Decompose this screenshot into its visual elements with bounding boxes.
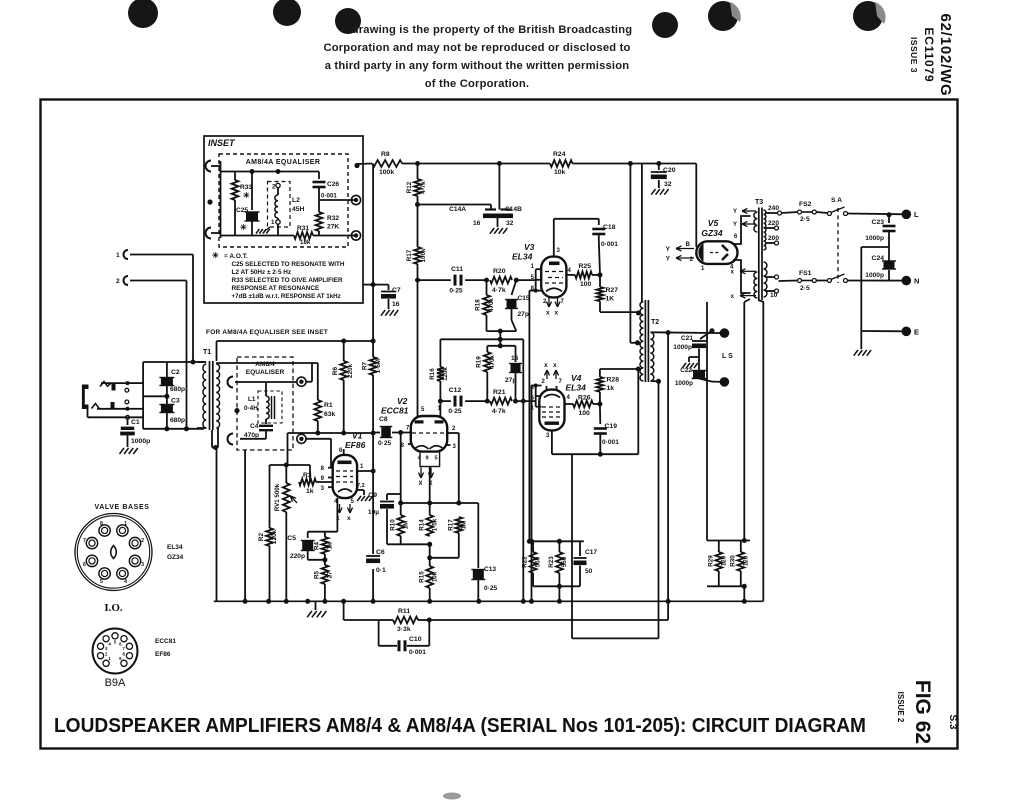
svg-text:R17: R17 — [406, 249, 413, 261]
B9A valve base — [93, 629, 138, 674]
node V1 anode — [371, 469, 376, 474]
svg-text:1M: 1M — [461, 521, 468, 530]
resistor R32 — [318, 193, 320, 212]
capacitor C12 — [454, 396, 457, 407]
resistor R17b — [455, 517, 462, 533]
resistor R19 — [486, 346, 488, 352]
svg-text:680p: 680p — [170, 417, 185, 424]
svg-text:EL34: EL34 — [167, 544, 183, 551]
svg-text:R30: R30 — [730, 555, 737, 567]
capacitor C16 — [515, 346, 517, 362]
svg-text:R24: R24 — [553, 151, 566, 158]
node rail y341 junction — [371, 339, 376, 344]
svg-text:0·001: 0·001 — [321, 193, 337, 200]
capacitor C6 — [366, 555, 380, 557]
svg-text:Y: Y — [733, 209, 737, 215]
ground earth — [860, 331, 862, 349]
grid rail y433 — [288, 432, 374, 434]
equaliser input arc lower — [228, 434, 234, 445]
svg-text:16: 16 — [392, 301, 400, 308]
jack plug lower — [92, 404, 100, 409]
node equaliser left edge — [234, 408, 239, 413]
wire secondary return drop — [571, 454, 573, 638]
jack plug upper — [100, 382, 111, 387]
wire feedback vertical — [667, 601, 669, 620]
svg-text:0·25: 0·25 — [448, 408, 462, 415]
svg-text:ECC81: ECC81 — [155, 638, 176, 645]
inductor L1 — [266, 396, 269, 419]
V5 heater arrows Y — [676, 248, 694, 250]
svg-text:0·001: 0·001 — [602, 439, 619, 446]
switch SA upper — [816, 212, 827, 213]
node feedback R11 right — [427, 618, 432, 623]
node grid rail junction — [371, 431, 376, 436]
resistor R17 — [414, 247, 421, 264]
wire C2 C3 mid tap — [143, 395, 167, 397]
resistor R15 — [426, 566, 433, 588]
wire R28 to T2 — [600, 368, 638, 370]
inductor L2 dashed box — [268, 182, 291, 228]
resistor R6 — [343, 341, 345, 361]
svg-text:B9A: B9A — [105, 677, 126, 689]
V3 pin4 lead — [566, 274, 575, 276]
svg-text:✳: ✳ — [243, 191, 250, 200]
svg-text:100: 100 — [580, 281, 592, 288]
resistor R25 — [575, 272, 592, 279]
node R24 right — [628, 161, 633, 166]
node inset top right — [354, 163, 359, 168]
switch SA link dashed — [837, 208, 839, 283]
resistor R31 — [294, 232, 313, 239]
wire switch to N terminal — [848, 280, 907, 282]
svg-text:63k: 63k — [324, 411, 336, 418]
wire y503 rail — [401, 502, 479, 504]
svg-text:C13: C13 — [484, 566, 496, 573]
RV1 wiper arrow — [291, 496, 298, 503]
svg-text:C2: C2 — [171, 369, 180, 376]
resistor R27 — [599, 275, 601, 287]
terminal L — [902, 210, 912, 220]
wire T1 secondary top to R1 — [216, 362, 218, 364]
svg-text:C14B: C14B — [505, 206, 522, 213]
ground C7 — [381, 310, 385, 316]
svg-text:1k: 1k — [306, 488, 314, 495]
svg-text:R29: R29 — [708, 555, 715, 567]
capacitor C10 — [378, 620, 380, 646]
V4 pin box — [535, 386, 537, 407]
svg-text:Y: Y — [733, 222, 737, 228]
node R6 top — [341, 339, 346, 344]
svg-text:ECC81: ECC81 — [381, 406, 409, 416]
svg-text:0·4H: 0·4H — [244, 405, 258, 412]
svg-text:470k: 470k — [488, 298, 495, 312]
svg-text:6: 6 — [83, 562, 86, 568]
wire V4 anode rail — [552, 453, 638, 455]
node V2 anode coupling — [415, 278, 420, 283]
svg-text:C26: C26 — [327, 181, 339, 188]
svg-text:✳: ✳ — [212, 251, 219, 260]
svg-text:= A.O.T.: = A.O.T. — [224, 253, 248, 260]
svg-text:100k: 100k — [379, 169, 394, 176]
svg-text:R32: R32 — [327, 215, 339, 222]
resistor R26 — [573, 401, 593, 408]
svg-text:x: x — [553, 362, 557, 369]
wire R31 to output — [319, 235, 356, 237]
svg-text:drawing is the property of the: drawing is the property of the British B… — [352, 24, 633, 36]
wire line A vertical — [372, 164, 374, 285]
node R20 left — [484, 278, 489, 283]
svg-text:8: 8 — [100, 521, 103, 527]
svg-text:FS2: FS2 — [799, 201, 812, 208]
svg-text:EL34: EL34 — [512, 252, 533, 262]
LS terminal upper — [720, 328, 730, 338]
svg-text:0·25: 0·25 — [484, 585, 498, 592]
svg-text:1·5M: 1·5M — [375, 359, 382, 373]
svg-text:R8: R8 — [381, 151, 390, 158]
svg-text:680p: 680p — [170, 386, 185, 393]
svg-text:RESPONSE AT RESONANCE: RESPONSE AT RESONANCE — [232, 285, 320, 292]
wire V1 cathode — [336, 498, 338, 532]
svg-text:x: x — [546, 310, 550, 317]
svg-text:C15: C15 — [518, 295, 530, 302]
svg-text:RV1 500k: RV1 500k — [274, 483, 281, 511]
svg-text:2·5: 2·5 — [800, 216, 810, 223]
svg-text:R31: R31 — [297, 225, 309, 232]
svg-text:INSET: INSET — [208, 138, 236, 148]
wire pin2 down — [458, 433, 460, 503]
V3 pin3 top lead — [553, 219, 555, 257]
svg-text:50: 50 — [585, 568, 593, 575]
resistor R7 — [370, 357, 377, 375]
wire HT rail — [357, 163, 372, 166]
svg-text:R5: R5 — [314, 570, 321, 578]
svg-text:4·7k: 4·7k — [420, 181, 427, 194]
ground C21 C22 — [689, 356, 699, 358]
svg-text:R3: R3 — [303, 472, 312, 479]
wire C26 to output — [319, 199, 356, 201]
capacitor C11 — [454, 275, 457, 286]
wire equaliser down lead — [244, 450, 246, 601]
svg-text:Corporation and may not be rep: Corporation and may not be reproduced or… — [323, 42, 630, 54]
svg-text:EF86: EF86 — [345, 440, 366, 450]
svg-text:x: x — [544, 362, 548, 369]
capacitor C26 — [318, 172, 320, 180]
wire connector2 right — [130, 280, 187, 282]
svg-text:L2: L2 — [292, 197, 300, 204]
svg-text:1: 1 — [116, 252, 120, 259]
svg-text:GZ34: GZ34 — [701, 228, 723, 238]
potentiometer RV1 — [285, 465, 287, 483]
wire earth link — [861, 246, 889, 248]
svg-text:100: 100 — [579, 410, 591, 417]
resistor R30 — [740, 541, 742, 553]
svg-text:C22: C22 — [680, 367, 692, 374]
ground C1 — [120, 448, 125, 454]
cathode rail top — [308, 531, 338, 533]
svg-text:1000p: 1000p — [673, 344, 692, 351]
wire feedback to R11 — [429, 619, 668, 621]
svg-text:4·7k: 4·7k — [492, 408, 506, 415]
svg-text:32: 32 — [664, 181, 672, 188]
switch SA lower — [816, 280, 827, 282]
svg-text:C12: C12 — [449, 387, 462, 394]
svg-text:220k: 220k — [347, 363, 354, 378]
capacitor C25 — [251, 172, 253, 211]
inset box — [204, 136, 363, 303]
V1 anode pin 1 lead — [357, 470, 373, 472]
wire T2 secondary to LS — [654, 331, 724, 334]
wire V4 cathode down — [534, 384, 538, 388]
wire HT down to T2 centre tap — [629, 164, 631, 343]
svg-text:550: 550 — [561, 556, 568, 567]
svg-text:1000p: 1000p — [865, 235, 884, 242]
T2 secondary top lead — [651, 331, 654, 333]
inset input connector arc lower — [206, 228, 212, 239]
V2 heater arrows — [420, 468, 422, 479]
capacitor C22 — [693, 371, 705, 379]
svg-text:R21: R21 — [493, 389, 506, 396]
T3 heater winding leads down — [744, 299, 750, 302]
capacitor C19 — [599, 404, 601, 424]
svg-text:C3: C3 — [171, 398, 180, 405]
capacitor C17 — [579, 541, 581, 556]
svg-text:R33: R33 — [240, 184, 252, 191]
fuse FS2 — [782, 212, 798, 213]
svg-text:R6: R6 — [332, 366, 339, 375]
resistor R23 — [558, 541, 560, 552]
capacitor C7 — [363, 284, 373, 286]
capacitor C21 — [710, 328, 715, 333]
wire V4 grid chain — [522, 339, 524, 601]
resistor R28 — [599, 369, 601, 377]
octal key — [111, 546, 117, 559]
svg-text:C24: C24 — [872, 255, 885, 262]
resistor R22 — [532, 541, 534, 552]
svg-text:R33 SELECTED TO GIVE AMPLIFIER: R33 SELECTED TO GIVE AMPLIFIER — [232, 277, 344, 284]
V4 pin3 bottom lead — [551, 430, 553, 454]
grid network rail 1 — [487, 330, 517, 332]
svg-text:32: 32 — [506, 220, 514, 227]
inset output connector upper — [351, 195, 360, 204]
svg-text:120k: 120k — [442, 367, 449, 381]
svg-text:R26: R26 — [578, 395, 591, 402]
svg-text:ISSUE 2: ISSUE 2 — [896, 692, 905, 723]
wire secondary return vertical — [658, 381, 660, 638]
svg-text:Y: Y — [666, 256, 671, 263]
svg-text:7: 7 — [83, 538, 86, 544]
svg-text:120: 120 — [743, 555, 750, 566]
svg-text:T1: T1 — [203, 349, 211, 356]
svg-text:C14A: C14A — [449, 206, 466, 213]
svg-text:of the Corporation.: of the Corporation. — [425, 78, 529, 90]
svg-text:✳: ✳ — [240, 223, 247, 232]
wire T1 primary leads — [197, 361, 206, 363]
svg-text:C6: C6 — [376, 549, 385, 556]
svg-text:10k: 10k — [554, 169, 566, 176]
svg-text:C4: C4 — [250, 423, 259, 430]
svg-text:FS1: FS1 — [799, 270, 812, 277]
svg-text:C23: C23 — [872, 219, 885, 226]
terminal E — [902, 327, 912, 337]
svg-text:T2: T2 — [651, 319, 659, 326]
inductor L1 dashed box — [258, 391, 282, 423]
svg-text:C11: C11 — [451, 266, 463, 273]
capacitor C23 — [887, 212, 892, 217]
node inset left edge — [207, 199, 212, 204]
svg-text:R17: R17 — [448, 519, 455, 531]
V4 heater arrows — [546, 370, 548, 379]
scan smudge bottom — [443, 793, 461, 800]
capacitor C18 — [598, 219, 600, 225]
node R21 right — [513, 399, 518, 404]
svg-text:V1: V1 — [352, 431, 363, 441]
punch hole 2 — [273, 0, 301, 26]
svg-text:R22: R22 — [522, 556, 529, 568]
capacitor C5 — [307, 532, 309, 538]
capacitor C4 — [265, 419, 267, 424]
wire heater line 2 — [743, 302, 745, 541]
resistor R1 — [317, 363, 319, 400]
svg-text:C20: C20 — [663, 167, 676, 174]
svg-text:a third party in any form with: a third party in any form without the wr… — [325, 60, 630, 72]
svg-text:Y: Y — [666, 246, 671, 253]
wire heater line 1 — [706, 302, 708, 541]
svg-text:C10: C10 — [409, 636, 422, 643]
resistor R4 — [324, 532, 326, 537]
svg-text:1K: 1K — [606, 296, 615, 303]
capacitor C15 — [512, 280, 517, 295]
inductor L2 — [276, 183, 280, 187]
wire V3 cathode down — [534, 289, 538, 293]
svg-text:470k: 470k — [489, 355, 496, 369]
wire connector2 down — [186, 281, 188, 429]
V2 pin2 lead — [446, 432, 459, 434]
svg-text:x: x — [555, 310, 559, 317]
punch hole 5 — [708, 1, 738, 31]
svg-text:B: B — [686, 241, 691, 248]
resistor R24 — [550, 160, 573, 167]
V1 left pin leads — [328, 467, 333, 469]
svg-text:0·001: 0·001 — [601, 241, 618, 248]
equaliser input arc upper — [228, 377, 234, 388]
T3 heater arrows x — [740, 270, 756, 272]
V1 pin 6 top lead — [343, 449, 345, 455]
wire connector1 down — [192, 255, 194, 363]
svg-text:LOUDSPEAKER AMPLIFIERS AM8/4 &: LOUDSPEAKER AMPLIFIERS AM8/4 & AM8/4A (S… — [54, 715, 866, 737]
svg-text:27p: 27p — [505, 377, 516, 384]
svg-text:R2: R2 — [258, 532, 265, 541]
svg-text:C25: C25 — [236, 207, 248, 214]
svg-text:10: 10 — [770, 292, 778, 299]
svg-text:V3: V3 — [524, 242, 535, 252]
node C12 tap — [438, 399, 443, 404]
wire sleeve rail — [87, 409, 89, 417]
cathode rail A — [387, 543, 430, 545]
AM8/4 equaliser dashed box — [237, 357, 293, 450]
punch hole 1 — [128, 0, 158, 28]
wire heater line 3 — [762, 302, 764, 601]
svg-text:C1: C1 — [131, 419, 140, 426]
terminal N — [902, 276, 912, 286]
wire R27 to T2 — [599, 301, 601, 312]
svg-text:ISSUE 3: ISSUE 3 — [909, 37, 919, 73]
node C7 tap — [371, 282, 376, 287]
capacitor C13 — [477, 503, 479, 568]
svg-text:R20: R20 — [493, 268, 506, 275]
resistor R11 — [418, 619, 429, 621]
resistor R12 — [414, 179, 421, 196]
svg-text:27K: 27K — [327, 224, 339, 231]
cathode rail top V3 V4 — [529, 540, 583, 542]
svg-text:C7: C7 — [392, 287, 401, 294]
svg-text:3·3k: 3·3k — [397, 626, 411, 633]
equaliser wires — [235, 381, 266, 383]
svg-text:EF86: EF86 — [155, 651, 171, 658]
main box left vertical — [216, 341, 218, 361]
border frame — [41, 100, 958, 749]
resistor R16 — [437, 367, 444, 381]
svg-text:R28: R28 — [607, 377, 620, 384]
svg-text:120k: 120k — [271, 529, 278, 544]
svg-text:T3: T3 — [755, 199, 763, 206]
svg-text:550: 550 — [535, 556, 542, 567]
wire HT to T2 primary top — [641, 164, 643, 302]
wire connector1 right — [130, 254, 193, 256]
inset input connector arc upper — [206, 161, 212, 172]
inset top rail — [235, 171, 319, 173]
punch hole 6 — [853, 1, 883, 31]
svg-text:X: X — [419, 481, 423, 487]
svg-text:1000p: 1000p — [865, 272, 884, 279]
svg-text:FOR AM8/4A EQUALISER SEE INSET: FOR AM8/4A EQUALISER SEE INSET — [206, 329, 328, 336]
svg-text:x: x — [347, 515, 351, 522]
svg-text:AM8/4A EQUALISER: AM8/4A EQUALISER — [246, 159, 321, 166]
svg-text:0·25: 0·25 — [449, 288, 463, 295]
svg-text:16: 16 — [511, 355, 519, 362]
svg-text:1: 1 — [124, 521, 127, 527]
svg-text:240: 240 — [768, 205, 779, 212]
ground bus symbol — [315, 601, 317, 610]
wire line C vertical — [439, 339, 441, 367]
svg-text:R10: R10 — [390, 519, 397, 531]
svg-text:E: E — [914, 328, 919, 337]
svg-text:1000p: 1000p — [131, 438, 150, 445]
svg-text:+7dB ±1dB w.r.t. RESPONSE AT 1: +7dB ±1dB w.r.t. RESPONSE AT 1kHz — [232, 293, 341, 300]
svg-text:R4: R4 — [314, 541, 321, 549]
svg-text:4·7k: 4·7k — [492, 287, 506, 294]
wire earth to E terminal — [861, 330, 906, 332]
svg-text:C8: C8 — [379, 416, 388, 423]
svg-text:L1: L1 — [248, 396, 256, 403]
wire secondary return horizontal — [572, 637, 659, 639]
svg-text:1·5k: 1·5k — [432, 518, 439, 531]
V3 heater arrows — [548, 298, 550, 308]
svg-text:R16: R16 — [429, 368, 436, 380]
punch hole 4 — [652, 12, 678, 38]
svg-text:C18: C18 — [603, 224, 616, 231]
grid network rail 2 — [487, 345, 515, 347]
svg-text:27: 27 — [327, 571, 334, 578]
capacitor C20 — [656, 161, 661, 166]
svg-text:GZ34: GZ34 — [167, 554, 184, 561]
svg-text:R18: R18 — [475, 299, 482, 311]
svg-text:120: 120 — [721, 555, 728, 566]
svg-text:L2 AT 50Hz ± 2·5 Hz: L2 AT 50Hz ± 2·5 Hz — [232, 269, 292, 276]
wire V2 cathode down — [429, 467, 431, 516]
main rail y341 — [217, 340, 374, 342]
svg-text:EQUALISER: EQUALISER — [246, 369, 285, 376]
wire line B vertical — [417, 164, 419, 180]
